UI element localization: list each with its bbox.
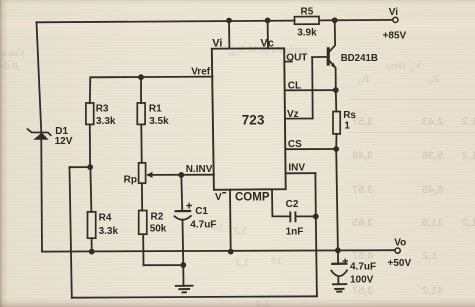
capacitor C3 output plus sign xyxy=(343,259,348,264)
ghost bleed-through layer xyxy=(228,45,307,58)
node junction V- rail xyxy=(228,249,234,255)
wire Vi pin xyxy=(228,20,230,48)
wire R3 to node A xyxy=(89,125,91,168)
potentiometer Rp wiper arrow xyxy=(146,172,153,178)
wire INV column upper xyxy=(314,173,316,216)
svg-text:+85V: +85V xyxy=(383,31,407,42)
potentiometer Rp xyxy=(139,163,146,183)
wire output rail xyxy=(42,250,395,251)
svg-text:3.3k: 3.3k xyxy=(96,116,116,127)
wire feedback bottom xyxy=(72,296,317,297)
wire INV column lower xyxy=(316,216,317,296)
node junction C2 INV xyxy=(313,214,319,220)
wire collector xyxy=(330,20,335,51)
label pin V- minus bar xyxy=(222,192,226,194)
wire Vz pin xyxy=(285,118,312,120)
capacitor C3 output bottom plate xyxy=(331,270,348,277)
svg-text:OUT: OUT xyxy=(286,53,307,64)
svg-text:4.7uF: 4.7uF xyxy=(190,220,216,231)
node junction ground rail xyxy=(180,262,186,268)
wire R2 to ground rail xyxy=(142,234,144,265)
svg-text:Vo: Vo xyxy=(394,238,406,249)
wire ground rail xyxy=(144,264,184,266)
svg-text:1nF: 1nF xyxy=(286,226,304,237)
wire emitter xyxy=(330,61,336,90)
node junction emitter CL xyxy=(333,87,339,93)
wire Vref rail xyxy=(90,77,213,104)
wire Rs to CS xyxy=(335,134,337,149)
wire INV pin xyxy=(285,172,315,174)
resistor Rs xyxy=(333,112,340,134)
wire COMP pin xyxy=(272,190,290,217)
resistor R4 xyxy=(88,212,96,238)
svg-text:3.9k: 3.9k xyxy=(297,27,317,38)
node junction CS Rs xyxy=(333,146,339,152)
wire OUT stub xyxy=(285,61,292,63)
node junction N.INV xyxy=(178,172,184,178)
svg-text:100V: 100V xyxy=(350,275,374,286)
transistor Q1 base bar xyxy=(327,47,330,65)
wire Vz to base vertical xyxy=(311,57,314,118)
node junction R1 top xyxy=(138,74,144,80)
svg-text:4.7uF: 4.7uF xyxy=(350,262,376,273)
ground output cap xyxy=(332,284,347,292)
wire R1 top xyxy=(140,77,142,103)
capacitor C1 bottom plate xyxy=(174,215,192,219)
capacitor C3 output top plate xyxy=(331,263,347,265)
svg-text:R5: R5 xyxy=(301,6,314,17)
wire CS to output rail xyxy=(336,149,338,250)
svg-text:12V: 12V xyxy=(55,136,73,147)
wire Vc pin xyxy=(267,20,269,48)
wire C2 right xyxy=(296,215,316,217)
svg-text:Rp: Rp xyxy=(124,174,137,185)
svg-text:1: 1 xyxy=(344,121,350,132)
svg-text:50k: 50k xyxy=(150,223,167,234)
svg-text:COMP: COMP xyxy=(235,191,270,203)
svg-text:CS: CS xyxy=(288,139,302,150)
wire C1 top column xyxy=(181,175,182,211)
wire output cap top xyxy=(337,250,339,263)
svg-text:R1: R1 xyxy=(149,103,162,114)
svg-text:V: V xyxy=(215,192,222,203)
wire output cap to ground xyxy=(337,278,339,284)
svg-text:C1: C1 xyxy=(195,206,208,217)
svg-text:Vi: Vi xyxy=(212,37,222,49)
wire left supply column xyxy=(37,22,43,251)
node junction R4 rail xyxy=(89,249,95,255)
svg-text:R2: R2 xyxy=(151,212,164,223)
wire N.INV pin xyxy=(151,174,214,176)
node junction cap rail xyxy=(335,248,341,254)
svg-text:CL: CL xyxy=(288,81,301,92)
svg-text:BD241B: BD241B xyxy=(341,53,378,64)
capacitor C1 plus sign xyxy=(186,203,192,209)
capacitor C2 left plate xyxy=(289,212,291,223)
wire node A left xyxy=(70,166,91,168)
ground main xyxy=(175,286,194,293)
svg-text:Vc: Vc xyxy=(260,37,273,49)
resistor R1 xyxy=(137,103,145,125)
svg-text:3.3k: 3.3k xyxy=(99,226,119,237)
svg-text:723: 723 xyxy=(242,112,265,127)
terminal Vo xyxy=(395,248,400,253)
wire feedback vertical xyxy=(70,167,72,298)
wire top rail left segment xyxy=(37,21,295,23)
svg-text:3.5k: 3.5k xyxy=(149,116,169,127)
terminal Vi xyxy=(393,17,398,22)
resistor R5 xyxy=(294,17,319,25)
transistor Q1 emitter arrowhead xyxy=(331,63,336,69)
resistor R2 xyxy=(139,211,147,235)
wire R1 to Rp xyxy=(140,125,142,163)
wire Rp to R2 xyxy=(141,183,143,210)
wire CL pin xyxy=(285,89,336,91)
wire node A to R4 xyxy=(90,167,91,212)
capacitor C1 top plate xyxy=(175,210,192,212)
wire R4 to output rail xyxy=(91,238,93,251)
wire base xyxy=(312,56,327,58)
diode D1 zener bar xyxy=(27,129,52,136)
node junction collector xyxy=(332,17,338,23)
svg-text:Vref: Vref xyxy=(191,67,211,78)
svg-text:C2: C2 xyxy=(286,199,299,210)
wire top rail right segment xyxy=(319,19,393,22)
capacitor C2 right plate xyxy=(294,212,296,223)
svg-text:N.INV: N.INV xyxy=(186,164,213,175)
svg-text:INV: INV xyxy=(288,163,305,174)
node A junction xyxy=(87,164,93,170)
svg-text:Vi: Vi xyxy=(389,7,398,18)
svg-text:R4: R4 xyxy=(99,213,112,224)
resistor R3 xyxy=(86,103,94,125)
svg-text:Vz: Vz xyxy=(287,109,299,120)
svg-text:R3: R3 xyxy=(96,103,109,114)
diode D1 triangle xyxy=(33,133,49,140)
wire CS pin xyxy=(285,148,336,150)
wire ground stub xyxy=(182,265,184,286)
svg-text:Rs: Rs xyxy=(343,110,356,121)
wire emitter to Rs xyxy=(335,90,338,112)
op-amp U1 723 regulator box xyxy=(212,48,286,190)
svg-text:+50V: +50V xyxy=(388,258,412,269)
node junction top Vc xyxy=(265,18,271,24)
node junction top Vi xyxy=(226,18,232,24)
wire C1 bottom column xyxy=(182,220,185,265)
wire V- pin xyxy=(229,190,232,252)
